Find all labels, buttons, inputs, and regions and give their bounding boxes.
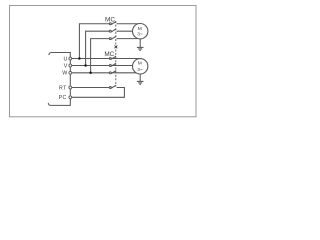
svg-text:W: W <box>62 71 67 77</box>
contactor MC1 contact 3 <box>109 36 116 39</box>
wire RT <box>72 87 110 89</box>
wire U phase <box>72 58 139 60</box>
node U junction <box>78 57 81 60</box>
ground (M1) <box>137 47 144 50</box>
wire M2 to ground <box>139 74 141 81</box>
contactor MC2 contact 1 <box>109 56 116 59</box>
contactor MC2 contact 2 <box>109 63 116 66</box>
interlock cross <box>115 46 118 49</box>
contactor MC1 contact 1 <box>109 21 116 24</box>
motor M1 <box>133 24 148 39</box>
wire V branch to MC1 <box>86 31 110 65</box>
terminal U <box>69 57 72 60</box>
wire U branch to MC1 <box>79 24 109 59</box>
inverter outline <box>48 53 70 106</box>
contactor MC aux contact on RT <box>109 85 116 88</box>
svg-text:V: V <box>64 63 68 69</box>
motor M2 <box>133 59 148 74</box>
terminal V <box>69 64 72 67</box>
contactor MC1 mechanical link (dashed) <box>115 21 117 87</box>
svg-text:3~: 3~ <box>137 32 143 38</box>
wire V phase <box>72 65 133 67</box>
terminal RT <box>69 86 72 89</box>
terminal PC <box>69 96 72 99</box>
svg-text:RT: RT <box>59 85 67 91</box>
svg-text:3~: 3~ <box>137 67 143 73</box>
svg-text:PC: PC <box>59 95 67 101</box>
contactor MC2 contact 3 <box>109 70 116 73</box>
ground (M2) <box>137 81 144 84</box>
wire M1 to ground <box>139 39 141 48</box>
svg-text:M: M <box>138 26 142 32</box>
svg-text:MC: MC <box>104 51 114 58</box>
wire W phase <box>72 72 138 74</box>
svg-text:MC: MC <box>105 16 115 23</box>
svg-text:M: M <box>138 61 142 67</box>
terminal W <box>69 71 72 74</box>
wire RT contact to PC <box>72 88 125 98</box>
svg-text:U: U <box>63 56 67 62</box>
node V junction <box>84 64 87 67</box>
contactor MC1 contact 2 <box>109 29 116 32</box>
wire W branch to MC1 <box>91 39 110 73</box>
wire MC1 to motor M1 <box>117 23 139 25</box>
node W junction <box>89 72 92 75</box>
